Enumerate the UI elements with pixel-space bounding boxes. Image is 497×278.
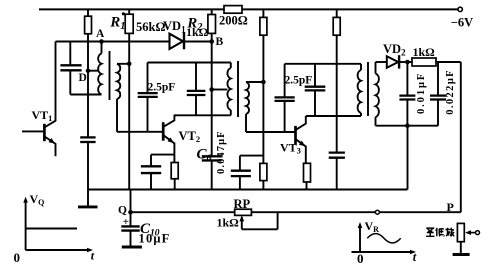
svg-text:56kΩ: 56kΩ bbox=[136, 20, 165, 34]
svg-text:0.01μF: 0.01μF bbox=[416, 72, 427, 114]
svg-text:1kΩ: 1kΩ bbox=[186, 25, 209, 39]
svg-text:P: P bbox=[447, 200, 454, 214]
svg-text:1kΩ: 1kΩ bbox=[413, 45, 436, 59]
svg-text:A: A bbox=[96, 28, 105, 40]
svg-text:1kΩ: 1kΩ bbox=[217, 216, 240, 230]
svg-text:0.047μF: 0.047μF bbox=[216, 130, 227, 174]
svg-text:+: + bbox=[123, 216, 129, 228]
svg-text:0: 0 bbox=[357, 251, 364, 266]
svg-text:B: B bbox=[216, 36, 224, 48]
svg-text:RP: RP bbox=[234, 197, 251, 211]
svg-text:2.5pF: 2.5pF bbox=[285, 75, 313, 87]
svg-text:200Ω: 200Ω bbox=[219, 14, 248, 28]
svg-text:t: t bbox=[413, 250, 417, 264]
svg-text:−6V: −6V bbox=[451, 15, 473, 29]
svg-text:10μF: 10μF bbox=[139, 232, 171, 246]
svg-text:0: 0 bbox=[14, 250, 21, 265]
svg-text:D: D bbox=[79, 72, 87, 84]
svg-text:0.022μF: 0.022μF bbox=[445, 69, 456, 115]
svg-text:2.5pF: 2.5pF bbox=[148, 82, 176, 94]
svg-text:Q: Q bbox=[118, 205, 127, 217]
